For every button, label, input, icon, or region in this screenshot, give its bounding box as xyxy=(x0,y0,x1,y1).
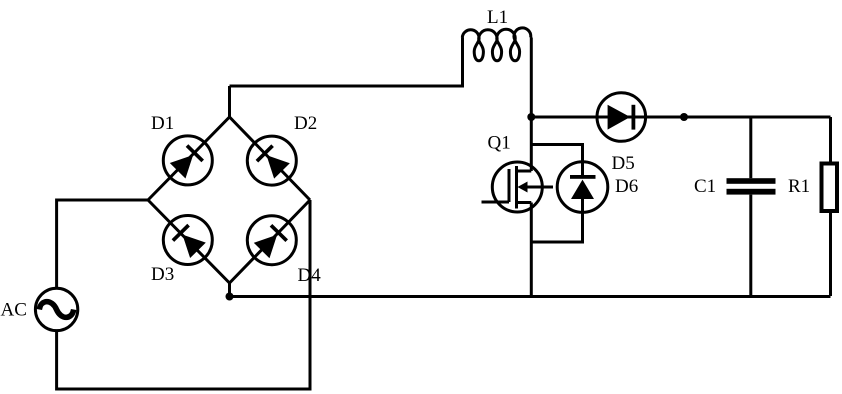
svg-text:R1: R1 xyxy=(788,176,810,197)
svg-text:Q1: Q1 xyxy=(488,133,511,154)
svg-text:D4: D4 xyxy=(298,265,322,286)
svg-text:D3: D3 xyxy=(151,264,174,285)
svg-text:D5: D5 xyxy=(612,153,635,174)
svg-text:D1: D1 xyxy=(151,113,174,134)
svg-text:AC: AC xyxy=(1,300,27,321)
svg-text:L1: L1 xyxy=(487,7,508,28)
svg-text:D2: D2 xyxy=(294,113,317,134)
svg-text:C1: C1 xyxy=(694,176,716,197)
svg-text:D6: D6 xyxy=(615,176,638,197)
